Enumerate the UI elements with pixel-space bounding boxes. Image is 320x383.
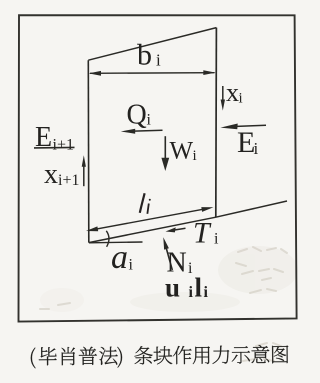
underline of label Ei+1 <box>34 146 75 149</box>
svg-text:b: b <box>137 39 152 72</box>
svg-text:i: i <box>129 257 134 274</box>
svg-text:l: l <box>195 273 203 303</box>
svg-text:i: i <box>239 91 243 107</box>
force arrow Ei (points left, with overline shaft) <box>237 125 266 126</box>
slice top edge <box>88 28 216 61</box>
svg-text:i: i <box>204 284 209 301</box>
svg-text:a: a <box>111 239 128 276</box>
dimension line li with arrowheads <box>90 209 204 230</box>
slice right edge <box>215 28 218 218</box>
svg-text:i+1: i+1 <box>53 137 74 154</box>
angle arc ai <box>106 231 109 247</box>
slice left edge <box>87 60 90 242</box>
force arrow xi+1 (points up, left side) <box>83 163 85 186</box>
svg-text:i: i <box>188 260 193 277</box>
svg-text:i+1: i+1 <box>58 172 79 189</box>
svg-text:i: i <box>254 139 259 158</box>
svg-text:i: i <box>156 51 161 70</box>
force arrow xi (points down, right side) <box>222 86 224 101</box>
label li (hand-drawn script l with subscript i) <box>140 193 145 213</box>
force arrow Ni (points up-left, normal to base) <box>166 247 173 271</box>
dimension line bi with arrowheads <box>90 72 215 75</box>
svg-text:i: i <box>214 231 219 248</box>
outer frame border <box>19 15 297 321</box>
svg-text:i: i <box>189 284 194 301</box>
svg-text:u: u <box>165 273 180 303</box>
force arrow Ti (points left along base) <box>173 228 186 230</box>
svg-text:T: T <box>193 217 212 250</box>
svg-text:x: x <box>226 78 239 107</box>
caption: (Bishop method) slice force diagram <box>31 345 289 369</box>
svg-text:x: x <box>44 159 58 190</box>
svg-text:i: i <box>193 148 197 164</box>
svg-text:i: i <box>147 112 152 129</box>
svg-text:W: W <box>170 138 194 165</box>
svg-text:E: E <box>35 122 52 153</box>
faint scan smudges (bleed-through) <box>40 246 298 312</box>
slip surface base line (extends beyond slice) <box>89 201 287 243</box>
force arrow Wi (points down) <box>164 136 166 159</box>
force arrow Qi (points left) <box>134 129 163 132</box>
svg-text:Q: Q <box>127 100 147 131</box>
label ui li <box>165 273 209 303</box>
horizontal reference line for angle ai <box>89 241 143 244</box>
